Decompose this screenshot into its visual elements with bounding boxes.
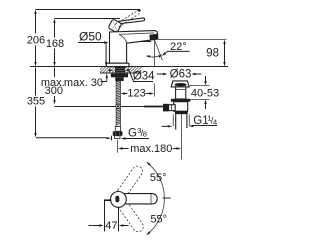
dimension 98 [158,39,227,41]
hose threaded tip [115,136,120,139]
dia34 arrows at shank [109,69,111,71]
top view: dashed lever rotated up 55deg [115,164,144,200]
faucet body and spout outline [110,31,158,64]
hose collar [115,77,123,81]
faucet lever handle (rest position) [118,18,145,24]
aerator [149,34,157,40]
dimension 40-53 [189,86,209,100]
pop-up rod reference line [55,106,145,108]
dimension 206 line [35,14,37,63]
55deg swing arc with arrows [150,165,165,232]
countertop surface reference line [30,66,228,68]
countertop section band with hatching [96,66,149,74]
hose end nut [113,131,123,136]
svg-text:Ø63: Ø63 [170,69,192,81]
threaded mounting shank [115,67,125,74]
355 bottom reference line with arrow at hose tip [36,137,107,139]
svg-text:Ø34: Ø34 [133,71,155,83]
svg-text:168: 168 [46,38,64,50]
mounting nut [111,74,128,78]
svg-text:max.180: max.180 [130,143,172,155]
spout body transition curve [119,35,127,43]
waste seal dark band [175,83,187,86]
svg-text:300: 300 [45,85,63,97]
drain centerline [181,114,183,159]
dimension 168 line [54,23,56,62]
svg-text:55°: 55° [150,213,167,225]
svg-text:98: 98 [206,47,219,59]
svg-text:max. 30: max. 30 [64,77,103,89]
top view: body circle [111,192,127,208]
faucet handle dashed (raised position) [115,10,141,27]
pop-up rod [144,106,163,108]
dimension max.300 line [54,68,56,101]
svg-text:206: 206 [27,35,45,47]
22 degree vertical reference line [154,40,156,67]
raised lever tip mark [137,9,141,12]
waste bottom band [175,111,188,114]
dimension 47 [89,225,100,227]
tailpipe thread lines [173,114,189,126]
svg-text:55°: 55° [150,172,167,184]
pop-up rod coupling [163,104,169,112]
svg-text:123: 123 [127,87,145,99]
svg-text:Ø50: Ø50 [79,30,102,44]
handle knuckle hub [108,19,122,33]
flexible supply hose [116,81,120,127]
123 right reference line [154,84,156,97]
svg-text:G: G [128,127,137,139]
dimension 355 line (continuation below countertop) [35,68,37,134]
top view: pivot mark [115,196,119,203]
rod pivot node [116,104,120,108]
top view: dashed lever rotated down 55deg [116,198,145,234]
47 center reference line [118,208,120,232]
base escutcheon [106,63,129,66]
22 degree slant stream line [155,40,163,60]
22 degree angle arc with arrows [148,55,161,57]
svg-text:47: 47 [105,220,117,232]
top view: rear stub [104,199,111,201]
waste washer bar [171,99,191,102]
svg-text:355: 355 [27,95,45,107]
top view: lever (plan) [113,194,158,204]
47 left reference line [104,200,106,232]
hose end collar [115,127,120,132]
pop-up waste flange [171,81,189,87]
svg-text:40-53: 40-53 [191,88,219,100]
svg-text:8: 8 [143,130,147,139]
max.180 left reference line [117,140,119,153]
top reference line (raised lever tip level) [36,9,141,11]
waste body [174,102,188,112]
arc zero tick [163,197,171,199]
spout inner line [119,33,154,35]
reference line (lever rest level) [55,18,121,20]
max30 down arrow at countertop surface [105,43,107,62]
waste neck [176,87,186,99]
right side arrow of Ø50 pointing left at body edge [131,41,151,43]
tailpipe walls [176,114,187,129]
max30 bracket and up arrow [101,78,107,82]
